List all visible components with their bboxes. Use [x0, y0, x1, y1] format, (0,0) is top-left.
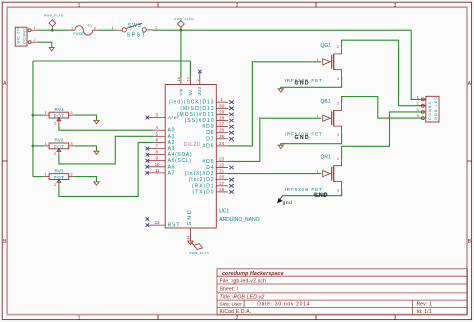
svg-text:1: 1 [317, 114, 319, 118]
svg-text:GND: GND [295, 80, 310, 86]
svg-text:24: 24 [219, 141, 224, 146]
svg-text:2: 2 [236, 315, 239, 321]
ground at RV2 [94, 151, 99, 154]
wire QB1 source to ground [281, 132, 342, 145]
svg-text:File: rgb-led-v2.sch: File: rgb-led-v2.sch [220, 278, 267, 284]
power flag PWR_FLAG (rail) [178, 21, 185, 31]
svg-text:23: 23 [219, 156, 224, 161]
svg-text:1: 1 [317, 58, 319, 62]
wire 5V rail (pots supply) [33, 61, 191, 77]
svg-text:(led)(SCK)D13: (led)(SCK)D13 [169, 100, 215, 106]
ground at UC1 GND [188, 241, 194, 245]
svg-text:2: 2 [94, 25, 96, 30]
no-connect 3V3 [198, 70, 202, 74]
svg-text:A4(SDA): A4(SDA) [168, 152, 193, 158]
potentiometer RV1 [44, 107, 74, 126]
wire QG1 drain to LED pin2 [342, 40, 425, 106]
svg-text:A1: A1 [168, 134, 176, 140]
svg-text:A0: A0 [168, 128, 176, 134]
wire RV1 pin3 to ground [74, 115, 96, 120]
svg-text:20: 20 [219, 175, 224, 180]
svg-text:#D5: #D5 [202, 159, 214, 165]
svg-text:RV3: RV3 [55, 168, 64, 173]
svg-text:1: 1 [317, 170, 319, 174]
svg-text:SW3: SW3 [128, 23, 142, 29]
svg-text:GND: GND [187, 208, 193, 225]
svg-text:2: 2 [54, 151, 56, 156]
svg-text:27: 27 [219, 122, 224, 127]
svg-text:#D6: #D6 [202, 143, 214, 149]
svg-text:RGB LED: RGB LED [433, 96, 438, 120]
svg-text:Rev: 1: Rev: 1 [417, 302, 433, 308]
wire D3 to QR1 gate [228, 173, 321, 175]
svg-text:28: 28 [219, 116, 224, 121]
svg-text:3: 3 [70, 172, 72, 177]
ground at CONN2 pin2 [49, 48, 54, 51]
UC1 bottom GND pin [190, 228, 192, 242]
ground at RV1 [94, 120, 99, 123]
ground at RV3 [94, 182, 99, 185]
wire D5 to QB1 gate [228, 118, 321, 161]
svg-text:1: 1 [45, 172, 47, 177]
svg-text:(RX)D1: (RX)D1 [192, 183, 215, 189]
wire RV2 pin3 to ground [74, 146, 96, 151]
op IC UC1 ARDUINO_NANO body [165, 85, 216, 229]
svg-text:PWR_FLAG: PWR_FLAG [190, 251, 210, 255]
svg-text:26: 26 [219, 128, 224, 133]
svg-text:1: 1 [78, 3, 81, 9]
svg-text:2: 2 [34, 38, 36, 42]
svg-text:GND: GND [315, 193, 327, 199]
potentiometer RV3 [44, 168, 74, 187]
power flag PWR_FLAG (GND pin, rotated) [191, 242, 203, 250]
wire left 5V rail down [32, 61, 34, 177]
svg-text:D4: D4 [206, 165, 214, 171]
svg-text:5V: 5V [188, 89, 194, 96]
UC1 left pins [147, 118, 165, 226]
svg-text:12: 12 [185, 76, 190, 81]
svg-text:Id: 1/1: Id: 1/1 [417, 309, 432, 315]
title block [217, 269, 467, 315]
svg-text:A3: A3 [168, 146, 176, 152]
svg-text:A7: A7 [168, 170, 176, 176]
wire RV3 pin3 to ground [74, 177, 96, 182]
transistor QG1 [285, 43, 342, 83]
wire rail to RV3 pin1 [33, 176, 44, 178]
svg-text:Date: 30 nov 2014: Date: 30 nov 2014 [257, 302, 310, 308]
svg-text:2: 2 [337, 45, 339, 49]
svg-text:3: 3 [337, 189, 339, 193]
svg-text:(MISO)D12: (MISO)D12 [180, 106, 214, 112]
svg-text:2: 2 [337, 157, 339, 161]
power flag PWR_FLAG (input) [49, 20, 56, 30]
svg-text:RV2: RV2 [55, 138, 64, 143]
svg-text:11: 11 [155, 168, 160, 173]
svg-text:29: 29 [219, 109, 224, 114]
svg-text:3: 3 [337, 133, 339, 137]
wire Vin drop [180, 30, 182, 77]
svg-text:FUSE: FUSE [73, 32, 84, 36]
svg-text:15: 15 [176, 76, 181, 81]
svg-text:QG1: QG1 [321, 43, 332, 49]
ground at QG1 [278, 89, 283, 92]
svg-text:QB1: QB1 [321, 99, 331, 105]
svg-text:Size: User: Size: User [220, 302, 243, 308]
svg-text:3V3: 3V3 [197, 87, 203, 96]
svg-text:2: 2 [155, 25, 157, 30]
junction RV2 [32, 145, 35, 148]
wire RV1 wiper to A0 [59, 124, 153, 131]
svg-text:DIL20: DIL20 [184, 142, 200, 148]
svg-text:A2: A2 [168, 140, 176, 146]
wire fuse to switch [98, 29, 116, 31]
UC1 top pins Vin 5V 3V3 [181, 72, 200, 85]
svg-text:1: 1 [112, 25, 114, 30]
svg-text:3: 3 [70, 141, 72, 146]
svg-text:gnd: gnd [283, 200, 293, 206]
svg-text:PWR_FLAG: PWR_FLAG [44, 14, 64, 18]
svg-text:10: 10 [155, 162, 160, 167]
svg-text:3: 3 [394, 315, 397, 321]
ground at QB1 [278, 145, 283, 148]
svg-text:21: 21 [219, 169, 224, 174]
svg-text:IRF520N FET: IRF520N FET [285, 187, 323, 192]
wire rail to RV2 pin1 [33, 145, 44, 147]
svg-text:CONN3: CONN3 [427, 101, 432, 120]
svg-text:PWR_FLAG: PWR_FLAG [174, 17, 194, 21]
UC1 right pins [216, 102, 228, 192]
connector CONN3 (RGB LED) [417, 94, 440, 122]
svg-text:1: 1 [78, 315, 81, 321]
junction RV1 [32, 114, 35, 117]
wire 12V rail down to LED conn pin1 [411, 30, 424, 99]
wire RV2 wiper to A1 [59, 136, 153, 164]
svg-text:2: 2 [337, 101, 339, 105]
svg-text:A5(SCL): A5(SCL) [168, 158, 192, 164]
svg-text:A6: A6 [168, 164, 176, 170]
svg-text:30: 30 [219, 103, 224, 108]
svg-text:F1: F1 [88, 23, 93, 28]
svg-text:22: 22 [219, 163, 224, 168]
svg-text:coredump Hackerspace: coredump Hackerspace [222, 271, 284, 277]
wire QR1 drain to LED pin3 [342, 112, 425, 160]
wire CONN2 pin1 to junction [38, 29, 53, 31]
fuse F1 [71, 23, 98, 36]
svg-text:KiCad E.D.A.: KiCad E.D.A. [220, 309, 252, 315]
svg-text:GND: GND [295, 135, 310, 141]
junction A [51, 29, 54, 32]
svg-text:D8: D8 [206, 130, 214, 136]
wire switch to 12V rail [153, 29, 412, 31]
wire QR1 source to gnd label [283, 188, 342, 196]
svg-text:ARDUINO_NANO: ARDUINO_NANO [219, 217, 259, 223]
svg-text:SPST: SPST [127, 33, 147, 39]
no-connect marks left pins [146, 116, 150, 227]
svg-text:RV1: RV1 [55, 107, 64, 112]
potentiometer RV2 [44, 138, 74, 157]
wire D6 to QG1 gate [228, 62, 321, 146]
svg-text:QR1: QR1 [321, 155, 332, 161]
svg-text:Title: RGB LED v2: Title: RGB LED v2 [220, 294, 265, 300]
svg-text:RST: RST [168, 223, 181, 229]
svg-text:CONN2: CONN2 [22, 28, 27, 44]
ground arrow gnd (QR1) [278, 196, 283, 203]
wire RV3 wiper to A2 [59, 142, 153, 196]
svg-text:1: 1 [71, 25, 73, 30]
svg-text:(Int2)D2: (Int2)D2 [189, 177, 215, 183]
svg-text:3: 3 [337, 77, 339, 81]
svg-text:Vin: Vin [178, 88, 184, 95]
svg-text:(MOSI)#D11: (MOSI)#D11 [177, 112, 215, 118]
svg-text:MIC 5/P: MIC 5/P [16, 26, 21, 44]
junction B [180, 29, 183, 32]
svg-text:UC1: UC1 [219, 208, 229, 214]
wire QB1 drain to LED pin4 [342, 97, 425, 119]
switch SW3 SPST [112, 23, 158, 39]
wire rail to RV1 pin1 [33, 114, 44, 116]
svg-text:2: 2 [54, 182, 56, 187]
svg-text:25: 25 [219, 134, 224, 139]
svg-text:(SS)#D10: (SS)#D10 [185, 118, 215, 124]
svg-text:2: 2 [54, 120, 56, 125]
svg-text:17: 17 [219, 181, 224, 186]
svg-text:3: 3 [394, 3, 397, 9]
wire QG1 source to ground [281, 76, 342, 89]
transistor QR1 [285, 155, 342, 193]
svg-text:13: 13 [155, 220, 160, 225]
svg-text:1: 1 [45, 110, 47, 115]
svg-text:16: 16 [219, 187, 224, 192]
svg-text:Sheet: /: Sheet: / [220, 287, 239, 293]
wire junction to fuse [52, 29, 70, 31]
svg-text:(TX)D0: (TX)D0 [192, 189, 214, 195]
svg-text:2: 2 [236, 3, 239, 9]
svg-text:#D9: #D9 [202, 124, 214, 130]
transistor QB1 [285, 99, 342, 137]
no-connect marks right pins [229, 100, 234, 193]
svg-text:3: 3 [70, 110, 72, 115]
svg-text:(Int3)#D3: (Int3)#D3 [185, 171, 215, 177]
wire CONN2 pin2 to ground [38, 42, 52, 47]
svg-text:D7: D7 [206, 136, 214, 142]
connector CONN2 (MIC 5/P) [15, 26, 37, 46]
svg-text:1: 1 [45, 141, 47, 146]
svg-text:1: 1 [34, 26, 36, 30]
